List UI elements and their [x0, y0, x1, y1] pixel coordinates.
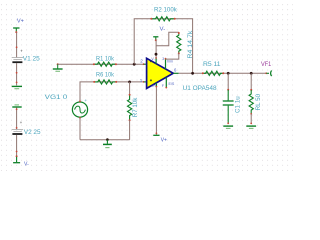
svg-text:2: 2 — [140, 58, 143, 63]
svg-text:U1 OPA548: U1 OPA548 — [183, 85, 217, 92]
svg-text:V+: V+ — [152, 84, 156, 88]
svg-text:V1 25: V1 25 — [23, 56, 40, 63]
svg-text:R2 100k: R2 100k — [154, 7, 177, 14]
svg-text:F: F — [162, 84, 164, 88]
svg-text:VG1 0: VG1 0 — [45, 94, 68, 101]
svg-text:VF1: VF1 — [261, 61, 272, 68]
svg-text:R7 10k: R7 10k — [132, 97, 139, 117]
svg-text:+: + — [84, 98, 87, 103]
svg-text:3: 3 — [162, 57, 164, 61]
svg-text:V2 25: V2 25 — [24, 129, 41, 136]
svg-text:R4 14.7k: R4 14.7k — [187, 30, 194, 59]
svg-text:6: 6 — [174, 68, 177, 73]
svg-text:+: + — [20, 49, 23, 54]
svg-text:RL 50: RL 50 — [255, 94, 262, 111]
svg-text:R5 11: R5 11 — [203, 61, 221, 68]
svg-text:V+: V+ — [161, 138, 167, 144]
svg-text:+: + — [20, 120, 23, 125]
svg-text:V-: V- — [160, 27, 166, 33]
svg-text:R6 10k: R6 10k — [96, 71, 115, 78]
svg-text:V+: V+ — [17, 18, 24, 24]
svg-text:V-: V- — [24, 161, 29, 167]
svg-text:E/S: E/S — [169, 82, 175, 86]
svg-text:C1 1u: C1 1u — [235, 96, 242, 113]
svg-text:V-: V- — [151, 57, 154, 61]
svg-text:R1 10k: R1 10k — [96, 55, 115, 62]
svg-text:Ilim: Ilim — [167, 60, 173, 64]
